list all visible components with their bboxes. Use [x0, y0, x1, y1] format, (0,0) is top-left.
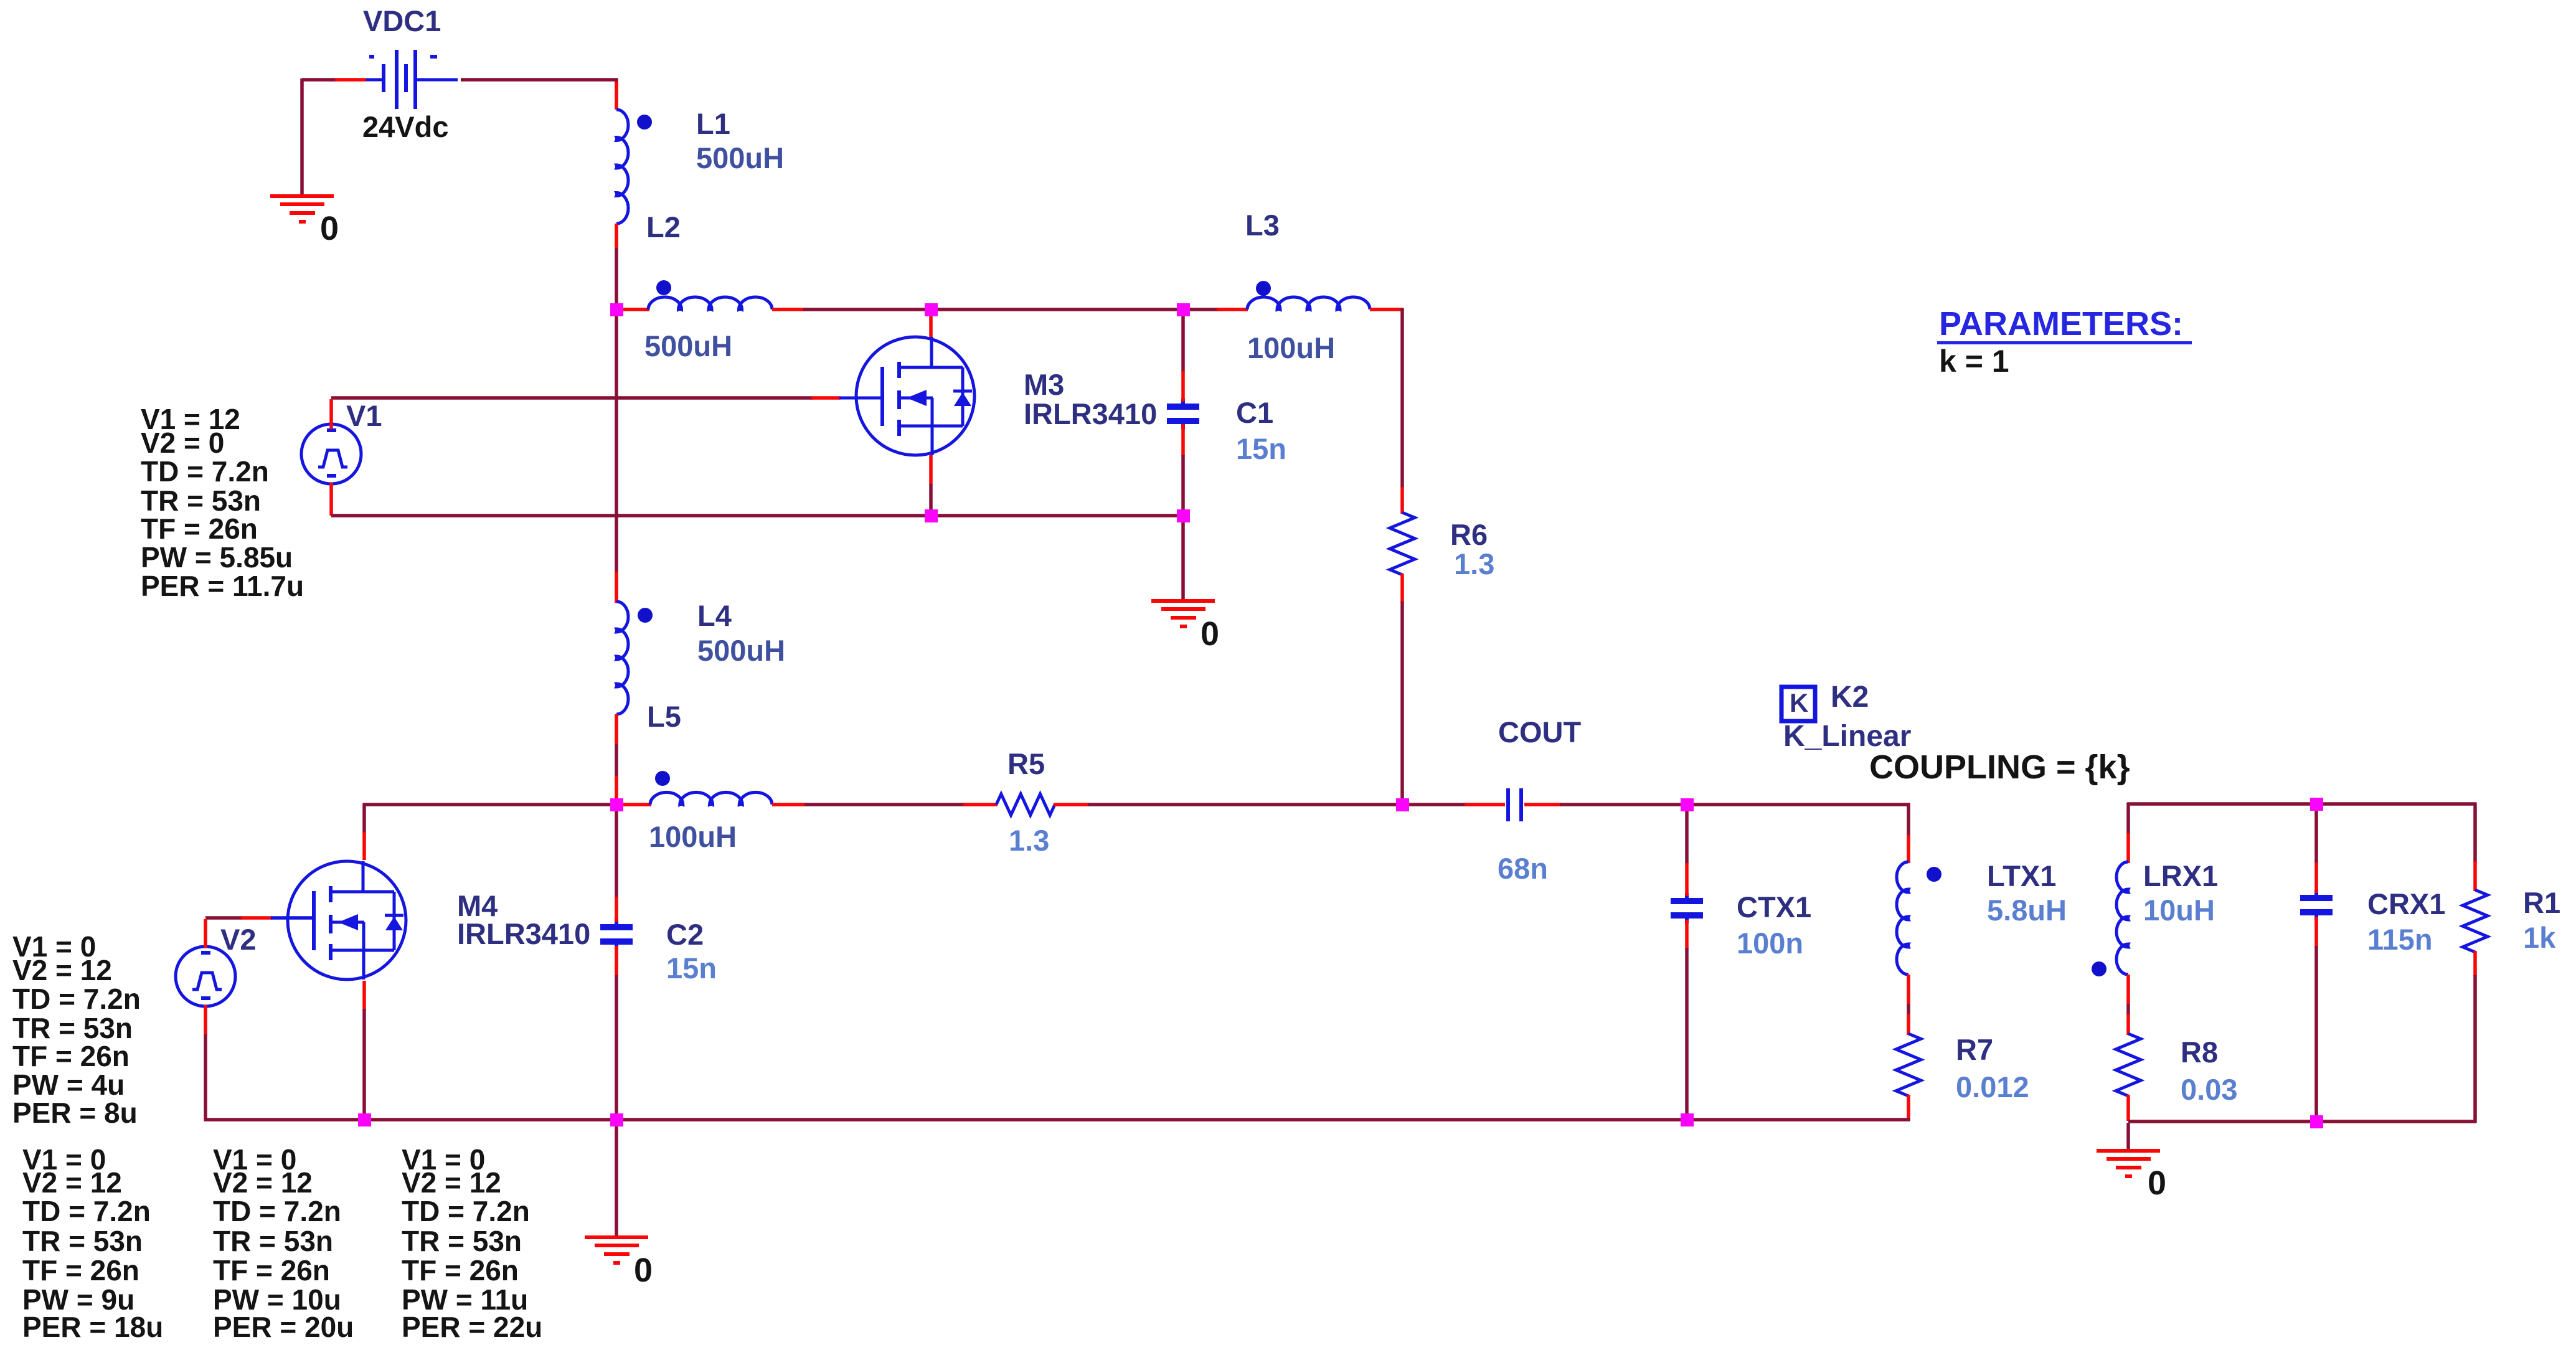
svg-text:115n: 115n	[2367, 923, 2433, 956]
inductor LTX1	[1897, 862, 1908, 975]
label K_Linear	[1783, 720, 1911, 753]
label 0 net RX ground	[2148, 1164, 2166, 1202]
svg-text:100uH: 100uH	[649, 820, 737, 853]
wire L4 to node F	[615, 714, 618, 803]
svg-text:PER = 18u: PER = 18u	[22, 1311, 163, 1343]
node K junction CTX1 bottom	[1681, 1113, 1694, 1126]
svg-text:K: K	[1790, 688, 1808, 717]
phase dot L5	[655, 771, 670, 786]
wire V1 minus row to M3 source	[331, 514, 929, 517]
label COUT	[1498, 715, 1581, 748]
svg-text:TR = 53n: TR = 53n	[22, 1225, 143, 1257]
svg-text:k = 1: k = 1	[1939, 344, 2009, 379]
label PARAMETERS title	[1937, 305, 2192, 344]
wire C2 bottom stub	[615, 946, 618, 1118]
wire V2 to M4 gate	[205, 916, 314, 920]
phase dot LTX1	[1927, 867, 1941, 882]
mosfet M3 IRLR3410	[839, 337, 974, 455]
svg-text:VDC1: VDC1	[363, 4, 441, 37]
wire battery to bus corner	[461, 78, 618, 82]
phase dot L4	[638, 608, 653, 623]
svg-text:V2 = 12: V2 = 12	[22, 1166, 122, 1199]
svg-text:TD = 7.2n: TD = 7.2n	[12, 983, 141, 1015]
svg-text:0: 0	[634, 1252, 653, 1289]
label M4 part IRLR3410	[457, 917, 590, 950]
svg-text:0: 0	[2148, 1164, 2166, 1202]
svg-text:C1: C1	[1236, 396, 1273, 429]
label R6 value 1.3	[1454, 547, 1494, 580]
svg-text:500uH: 500uH	[697, 634, 785, 667]
capacitor COUT	[1506, 788, 1523, 821]
wire LRX1 to R8	[2126, 975, 2130, 1035]
wire node J to node K	[618, 1118, 1685, 1122]
node G junction R6 bottom	[1396, 798, 1409, 811]
wire LRX1 top stub	[2126, 833, 2130, 863]
inductor L3	[1247, 297, 1370, 309]
svg-text:COUPLING = {k}: COUPLING = {k}	[1869, 748, 2130, 786]
svg-text:1k: 1k	[2523, 921, 2556, 954]
wire CTX1 bottom stub	[1685, 920, 1689, 1118]
label 0 net C2 ground	[634, 1252, 653, 1289]
svg-text:15n: 15n	[1236, 432, 1286, 465]
svg-text:TF = 26n: TF = 26n	[402, 1254, 519, 1287]
svg-text:0: 0	[320, 210, 339, 247]
svg-text:0: 0	[1201, 615, 1219, 653]
resistor R6	[1390, 512, 1415, 575]
label 0 net VDC1 ground	[320, 210, 339, 247]
wire V2 minus down to bottom bus	[204, 1034, 207, 1121]
label LTX1 value 5.8uH	[1987, 894, 2067, 927]
svg-text:TR = 53n: TR = 53n	[402, 1225, 522, 1257]
label L2 value 500uH	[644, 329, 732, 362]
ground 0 at RX	[2097, 1149, 2160, 1178]
label R7 value 0.012	[1956, 1070, 2029, 1103]
svg-text:L3: L3	[1245, 209, 1280, 242]
wire RX top bus right	[2318, 802, 2476, 806]
svg-text:PER = 20u: PER = 20u	[213, 1311, 354, 1343]
svg-text:V2 = 0: V2 = 0	[141, 427, 224, 459]
inductor L2	[648, 297, 772, 309]
label CTX1 value 100n	[1737, 927, 1803, 960]
svg-text:1.3: 1.3	[1009, 824, 1049, 857]
wire R7 to bottom bus	[1907, 1095, 1910, 1121]
label COUT value 68n	[1498, 852, 1548, 885]
wire CRX1 top stub	[2314, 806, 2318, 893]
svg-text:TD = 7.2n: TD = 7.2n	[22, 1195, 151, 1227]
svg-text:L2: L2	[646, 210, 681, 243]
wire L3 to R6 corner	[1370, 308, 1404, 488]
wire M4 drain row	[363, 803, 615, 806]
label R7	[1956, 1033, 1993, 1066]
svg-text:1.3: 1.3	[1454, 547, 1494, 580]
svg-text:V2 = 12: V2 = 12	[213, 1166, 313, 1199]
wire RX bottom bus	[2128, 1120, 2315, 1123]
label k = 1	[1939, 344, 2009, 379]
wire node H to LTX1 corner	[1689, 803, 1910, 836]
label V1 parameter block	[141, 403, 304, 602]
svg-text:R1: R1	[2523, 886, 2560, 919]
wire bottom bus left	[204, 1118, 362, 1122]
wire C1 bottom stub	[1181, 424, 1185, 513]
label C2 value 15n	[666, 952, 717, 985]
svg-text:15n: 15n	[666, 952, 717, 985]
wire M4 source stub	[362, 981, 366, 1118]
label R1	[2523, 886, 2560, 919]
node L junction CRX1 top	[2310, 798, 2323, 811]
svg-text:R6: R6	[1450, 518, 1488, 551]
resistor R5	[996, 794, 1055, 815]
wire L5 to R5	[772, 803, 998, 806]
label CRX1	[2367, 887, 2445, 920]
wire VDC1 plus to battery	[302, 78, 366, 82]
svg-text:PER = 8u: PER = 8u	[12, 1097, 138, 1129]
svg-text:500uH: 500uH	[696, 141, 784, 174]
svg-text:C2: C2	[666, 918, 704, 951]
wire R6 top stub	[1400, 487, 1404, 514]
svg-text:0.012: 0.012	[1956, 1070, 2029, 1103]
wire V1 to M3 gate	[331, 396, 841, 400]
wire LTX1 top stub	[1907, 835, 1910, 863]
node F junction bus/L5 row	[610, 798, 623, 811]
label L5	[647, 700, 681, 733]
label R5	[1007, 747, 1045, 780]
svg-text:LTX1: LTX1	[1987, 859, 2056, 892]
label L4 value 500uH	[697, 634, 785, 667]
label V2 parameter block	[12, 930, 141, 1129]
wire M4 drain stub	[362, 803, 366, 860]
svg-text:PW = 5.85u: PW = 5.85u	[141, 541, 293, 574]
label L3	[1245, 209, 1280, 242]
svg-text:V2 = 12: V2 = 12	[402, 1166, 501, 1199]
svg-text:PER = 11.7u: PER = 11.7u	[141, 570, 304, 602]
label M4	[457, 889, 498, 922]
wire node I to node J	[366, 1118, 615, 1122]
label CRX1 value 115n	[2367, 923, 2433, 956]
label R1 value 1k	[2523, 921, 2556, 954]
svg-text:TF = 26n: TF = 26n	[12, 1040, 130, 1072]
inductor LRX1	[2116, 862, 2128, 975]
svg-text:TF = 26n: TF = 26n	[141, 512, 258, 545]
label V1	[346, 399, 382, 432]
wire R5 to node G	[1054, 803, 1400, 806]
label V3 parameter block	[22, 1143, 163, 1343]
label L2	[646, 210, 681, 243]
wire bus top to L1	[615, 78, 618, 110]
label C1 value 15n	[1236, 432, 1286, 465]
wire M3 drain stub	[929, 313, 933, 338]
svg-text:LRX1: LRX1	[2143, 859, 2218, 892]
label R8 value 0.03	[2181, 1073, 2237, 1106]
wire node D to node E	[933, 514, 1181, 517]
capacitor CTX1	[1671, 893, 1703, 923]
label L5 value 100uH	[649, 820, 737, 853]
wire R8 to bottom bus	[2126, 1095, 2130, 1121]
wire CTX1 top stub	[1685, 806, 1689, 896]
svg-text:M3: M3	[1024, 368, 1064, 401]
label CTX1	[1737, 890, 1811, 923]
svg-text:100uH: 100uH	[1247, 331, 1335, 364]
wire node B to node C	[933, 308, 1181, 311]
label R6	[1450, 518, 1488, 551]
wire M3 source stub	[929, 455, 933, 513]
ground 0 at VDC1	[270, 194, 334, 224]
phase dot L3	[1256, 281, 1271, 296]
svg-text:500uH: 500uH	[644, 329, 732, 362]
node E junction C1 bottom	[1177, 509, 1190, 522]
label K2	[1831, 681, 1869, 714]
label L4	[697, 599, 732, 632]
wire R8 node to ground	[2126, 1123, 2130, 1150]
node J junction C2 bottom/ground	[610, 1113, 623, 1126]
svg-text:24Vdc: 24Vdc	[362, 110, 448, 143]
wire C2 top stub	[615, 806, 618, 922]
wire node F stub to L5	[620, 803, 651, 806]
label C1	[1236, 396, 1273, 429]
svg-text:L1: L1	[696, 107, 730, 140]
label V5 parameter block	[402, 1143, 542, 1343]
wire LTX1 to R7	[1907, 975, 1910, 1035]
svg-text:L4: L4	[697, 599, 732, 632]
wire node A pin stub to L2	[620, 308, 649, 311]
node H junction CTX1 top	[1681, 798, 1694, 811]
label M3 part IRLR3410	[1024, 397, 1157, 430]
label LRX1 value 10uH	[2143, 894, 2215, 927]
label VDC1	[363, 4, 441, 37]
svg-text:TD = 7.2n: TD = 7.2n	[213, 1195, 341, 1227]
resistor R8	[2116, 1034, 2141, 1096]
label 0 net C1 ground	[1201, 615, 1219, 653]
svg-text:10uH: 10uH	[2143, 894, 2215, 927]
ground 0 at C1	[1151, 599, 1215, 628]
label R8	[2181, 1036, 2218, 1069]
svg-text:68n: 68n	[1498, 852, 1548, 885]
inductor L4	[616, 602, 628, 714]
wire RX bottom bus right	[2318, 1120, 2476, 1123]
wire bus node A down to L4	[615, 311, 618, 603]
wire node K to R7 corner	[1689, 1118, 1910, 1121]
node I junction M4 source	[358, 1113, 371, 1126]
resistor R7	[1896, 1034, 1921, 1096]
label R5 value 1.3	[1009, 824, 1049, 857]
label L1 value 500uH	[696, 141, 784, 174]
capacitor C1	[1167, 399, 1199, 429]
wire L2 to M3 drain node	[772, 308, 929, 311]
wire R1 column	[2473, 803, 2477, 891]
svg-text:R8: R8	[2181, 1036, 2218, 1069]
capacitor C2	[600, 919, 633, 950]
capacitor CRX1	[2300, 890, 2333, 920]
wire VDC1 minus down to ground	[300, 78, 304, 194]
svg-text:CRX1: CRX1	[2367, 887, 2445, 920]
phase dot LRX1	[2092, 961, 2107, 976]
inductor L5	[650, 792, 772, 805]
node B junction M3 drain	[925, 303, 938, 316]
phase dot L1	[637, 115, 652, 130]
label L3 value 100uH	[1247, 331, 1335, 364]
wire node J to ground	[615, 1122, 618, 1235]
svg-text:V2 = 12: V2 = 12	[12, 954, 112, 986]
wire node G to COUT	[1404, 803, 1505, 806]
label 24Vdc	[362, 110, 448, 143]
wire C1 node E to ground	[1181, 517, 1185, 599]
node D junction M3 source	[925, 509, 938, 522]
label LTX1	[1987, 859, 2056, 892]
svg-text:V1: V1	[346, 399, 382, 432]
wire R1 to bottom bus	[2473, 951, 2477, 1123]
node A junction bus/L2	[610, 303, 623, 316]
label V2	[220, 923, 257, 956]
svg-text:5.8uH: 5.8uH	[1987, 894, 2067, 927]
wire CRX1 bottom stub	[2314, 917, 2318, 1120]
label K symbol box	[1781, 687, 1815, 721]
label M3	[1024, 368, 1064, 401]
label COUPLING = {k}	[1869, 748, 2130, 786]
svg-text:TF = 26n: TF = 26n	[22, 1254, 139, 1287]
svg-text:IRLR3410: IRLR3410	[1024, 397, 1157, 430]
label V4 parameter block	[213, 1143, 354, 1343]
label C2	[666, 918, 704, 951]
svg-text:PARAMETERS:: PARAMETERS:	[1939, 305, 2183, 342]
node M junction CRX1 bottom	[2310, 1115, 2323, 1128]
svg-text:TF = 26n: TF = 26n	[213, 1254, 330, 1287]
wire RX top bus	[2127, 803, 2315, 834]
svg-text:PER = 22u: PER = 22u	[402, 1311, 542, 1343]
svg-text:TR = 53n: TR = 53n	[213, 1225, 333, 1257]
svg-text:CTX1: CTX1	[1737, 890, 1811, 923]
svg-text:TD = 7.2n: TD = 7.2n	[141, 455, 269, 488]
svg-text:V2: V2	[220, 923, 257, 956]
inductor L1	[616, 110, 628, 224]
svg-text:100n: 100n	[1737, 927, 1803, 960]
svg-text:R7: R7	[1956, 1033, 1993, 1066]
mosfet M4 IRLR3410	[271, 861, 406, 980]
wire L1 to node A	[615, 224, 618, 308]
label L1	[696, 107, 730, 140]
pulse source V2	[176, 919, 235, 1036]
battery VDC1	[366, 50, 458, 109]
wire node C to L3	[1185, 308, 1248, 311]
ground 0 at C2	[585, 1235, 648, 1265]
wire COUT to node H	[1524, 803, 1685, 806]
svg-text:0.03: 0.03	[2181, 1073, 2237, 1106]
wire R6 bottom to node G	[1400, 574, 1404, 803]
pulse source V1	[301, 399, 361, 516]
svg-text:IRLR3410: IRLR3410	[457, 917, 590, 950]
node C junction C1 top	[1177, 303, 1190, 316]
svg-text:L5: L5	[647, 700, 681, 733]
svg-text:K2: K2	[1831, 681, 1869, 714]
wire C1 top stub	[1181, 311, 1185, 402]
svg-text:COUT: COUT	[1498, 715, 1581, 748]
svg-text:TD = 7.2n: TD = 7.2n	[402, 1195, 530, 1227]
phase dot L2	[656, 280, 671, 295]
label LRX1	[2143, 859, 2218, 892]
svg-text:R5: R5	[1007, 747, 1045, 780]
resistor R1	[2463, 890, 2488, 952]
